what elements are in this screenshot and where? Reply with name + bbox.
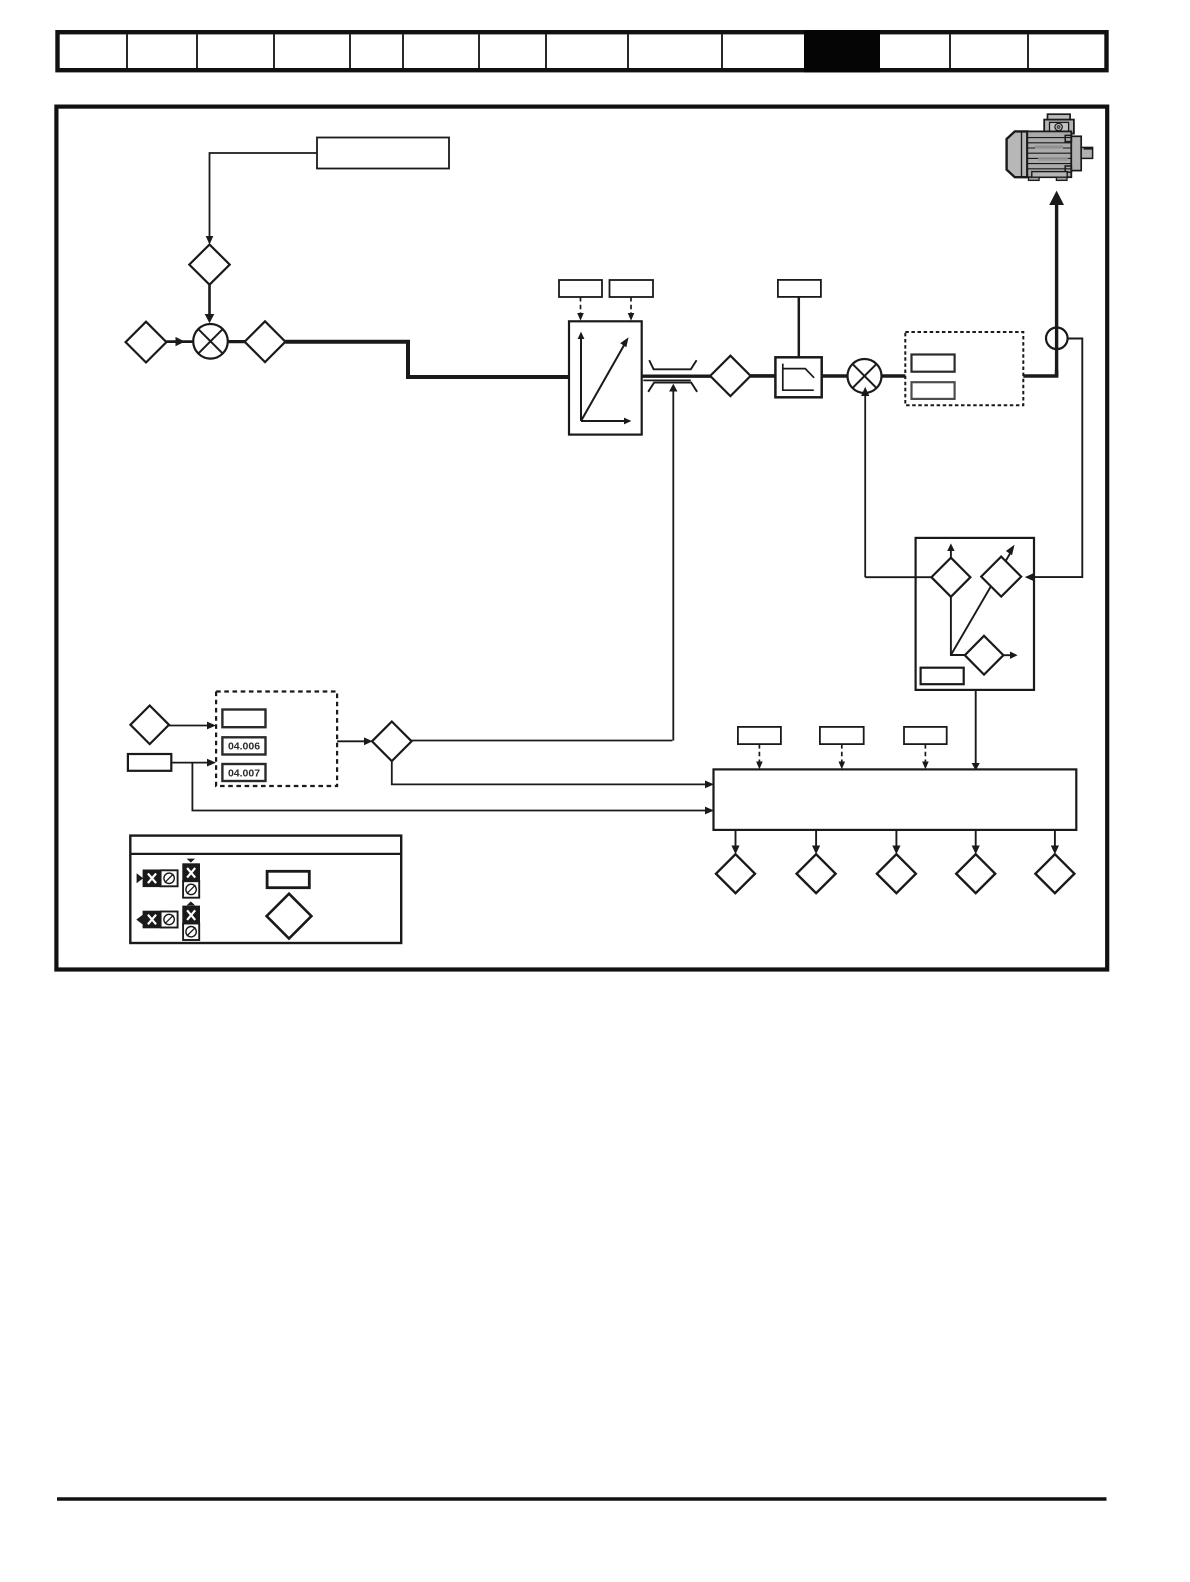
wire: selector feedback up into S2 [861, 387, 869, 577]
dashed arrow: monitor param 1 into monitor block [756, 744, 763, 769]
selector diamond SD1 (speed demand) [931, 543, 970, 596]
parameter box (ramp rate 2) [610, 280, 654, 297]
output diamond O2 [797, 830, 836, 893]
parameter box (monitor param 3) [904, 727, 947, 744]
summing junction S1 (multiplier) [193, 324, 228, 359]
parameter box (monitor param 1) [738, 727, 781, 744]
wire: ramp output through bypass [642, 376, 712, 380]
wire: filter parameter down to filter block [798, 297, 801, 358]
wire: P2 to summing junction S1 [166, 337, 192, 346]
parameter diamond P5 [130, 706, 169, 745]
parameter box 04.006 [222, 737, 265, 754]
ramp bypass symbol (break brackets) [648, 360, 697, 392]
parameter box (input, lower left) [128, 754, 171, 771]
dashed arrow: monitor param 3 into monitor block [922, 744, 929, 769]
output diamond O4 [956, 830, 995, 893]
dashed arrow: ramp rate 2 into ramp block [628, 297, 635, 321]
output diamond O3 [877, 830, 916, 893]
svg-text:04.006: 04.006 [228, 741, 260, 753]
wire: dashed group to parameter diamond P6 [337, 737, 372, 745]
wire: drive output up to motor with arrow [1049, 191, 1064, 376]
wire: filter to summing junction S2 [821, 374, 848, 378]
wire: reference box to parameter diamond P1 [206, 153, 317, 245]
key: parameter box sample [267, 871, 309, 887]
wire: bypass select arrow from P6 [669, 384, 677, 741]
parameter box (top, unlabeled) [222, 710, 265, 728]
ramp block (reference ramp) [569, 321, 642, 434]
output diamond O5 [1035, 830, 1074, 893]
wire: P6 right to bypass select line [412, 740, 673, 742]
parameter diamond P4 [710, 356, 750, 396]
junction node N1 [1046, 328, 1068, 350]
dashed block: torque reference group [216, 692, 337, 787]
parameter diamond P3 [245, 321, 286, 362]
header black tab (active menu 4) [804, 30, 880, 72]
parameter box (current limit 2) [912, 382, 955, 399]
parameter diamond P1 [189, 245, 229, 285]
reference box (torque reference source) [317, 138, 449, 169]
wire: P3 to ramp block (thick signal path) [285, 342, 569, 377]
parameter box (current limit 1) [912, 355, 955, 372]
parameter box (ramp rate 1) [559, 280, 602, 297]
output diamond O1 [716, 830, 755, 893]
dashed block: current limits group [905, 332, 1023, 405]
wire: selector output down to monitor block [972, 690, 980, 771]
legend key box [130, 836, 401, 943]
wire: P6 bottom down to monitor block input 1 [392, 761, 714, 788]
footer rule [57, 1497, 1107, 1501]
key: parameter diamond sample [267, 894, 312, 939]
diagram frame [56, 107, 1107, 970]
wire: N1 feedback down to selector diamond [1025, 339, 1083, 582]
key: read-write parameter symbol (vertical X / 0 with down arrow) [183, 859, 199, 898]
wire: input box into dashed group box [171, 759, 216, 767]
dashed arrow: ramp rate 1 into ramp block [577, 297, 584, 321]
svg-text:04.007: 04.007 [228, 767, 260, 779]
key: output terminal symbol (X / 0 pair with left arrow) [136, 912, 177, 928]
wire: P5 into dashed group box [169, 722, 216, 730]
parameter box (monitor param 2) [820, 727, 864, 744]
parameter diamond P6 [372, 722, 412, 762]
wire: branch from input line down to monitor block input 2 [192, 763, 714, 815]
selector diamond SD3 (mode output) [965, 636, 1018, 675]
selector diamond SD2 (current feedback) [981, 557, 1021, 597]
monitor block (current monitoring) [714, 769, 1077, 830]
switch lever line inside selector [951, 545, 1015, 655]
parameter diamond P2 [126, 322, 167, 363]
summing junction S2 (multiplier) [848, 359, 882, 393]
wire: P4 to filter block [751, 374, 777, 378]
wire: P1 down to summing junction S1 [205, 285, 215, 324]
filter block (first order filter) [775, 357, 821, 397]
header parameter-navigation bar [58, 32, 1107, 70]
wire: S2 to current limit block [882, 374, 906, 378]
dashed arrow: monitor param 2 into monitor block [839, 744, 846, 769]
parameter box (filter time constant) [778, 280, 821, 297]
motor M1 [1007, 114, 1093, 180]
key: input terminal symbol (X / 0 pair with right arrow) [137, 870, 178, 886]
wire: current limit block to drive output line [1023, 370, 1056, 376]
parameter box (mode select) inside selector [921, 668, 964, 685]
parameter box 04.007 [222, 764, 265, 781]
wire: selector left input from S2 branch [865, 576, 931, 578]
wire: S1 to P3 [228, 340, 245, 343]
key: read-only parameter symbol (vertical X / 0 with up arrow) [183, 901, 199, 940]
selector block (torque mode selector) [916, 538, 1034, 690]
